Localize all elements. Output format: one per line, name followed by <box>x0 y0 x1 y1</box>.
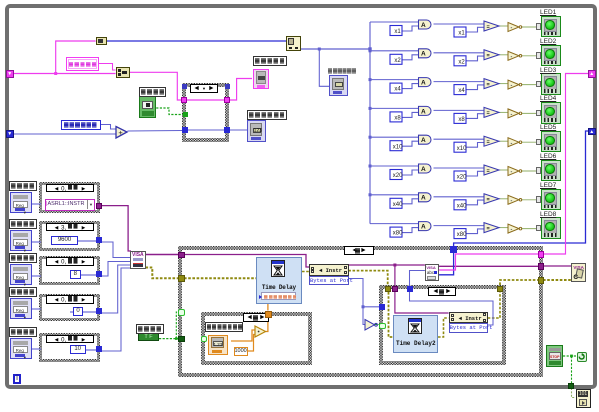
wire: bus tap row 8 <box>370 223 419 225</box>
svg-text:=: = <box>487 24 490 30</box>
wire: string from left shift register <box>13 73 116 75</box>
indicator: LED current state with label <box>328 68 356 74</box>
wire: Equal to Not row 3 <box>499 83 508 85</box>
shift register right (count, blue) <box>588 128 596 136</box>
control: receive period DBL (1.23) <box>208 335 228 355</box>
svg-text:-: - <box>511 54 513 60</box>
wire: value into inner case tunnel <box>363 306 380 308</box>
property node: Bytes at Port (2) <box>449 312 488 324</box>
numeric constant 9600 (baud rate) <box>51 236 78 246</box>
node: Concatenate Strings <box>116 67 130 78</box>
wire: bus tap row 4 <box>370 107 419 109</box>
wire: period value to divide <box>231 330 256 341</box>
indicator LED1 (boolean round LED) <box>541 16 561 38</box>
case structure: stop bits default case <box>39 333 100 362</box>
wire: mask const to AND row 8 <box>402 228 419 233</box>
AND gate row 4 <box>419 106 432 115</box>
Equal? node row 6 <box>484 165 499 175</box>
tunnel: boolean selector (inner read case left) <box>379 323 386 330</box>
tunnel: VISA out (comm port case) <box>96 203 102 209</box>
Equal? node row 7 <box>484 194 499 204</box>
LED6 input terminal stub <box>536 167 541 174</box>
shift register right (string, pink) <box>588 70 596 78</box>
control terminal icon: baud rate (ring) <box>10 230 32 251</box>
wire: constant to tunnel (parity) <box>70 310 100 314</box>
wire: read count to right shift register <box>454 131 588 246</box>
junction: bus row 7 <box>369 193 372 196</box>
case structure: baud rate default case <box>39 221 100 251</box>
wire: bus tap row 1 <box>370 21 419 23</box>
express VI: Time Delay <box>256 257 302 304</box>
svg-text:A: A <box>421 108 426 115</box>
svg-text:x80: x80 <box>457 232 467 238</box>
case structure: inner read case <box>379 285 506 365</box>
indicator LED8 label <box>540 211 556 218</box>
svg-text:+: + <box>118 128 123 137</box>
numeric constant 0 (parity) <box>73 307 84 317</box>
control terminal icon: stop bits (ring) <box>10 338 32 359</box>
wire: AND out to Equal row 4 <box>434 109 485 111</box>
wire: bytes-at-port value down <box>348 279 363 307</box>
constant x20 (mask, col 2) row 6 <box>454 171 466 181</box>
constant x10 (mask, col 1) row 5 <box>390 141 402 151</box>
Equal? node row 5 <box>484 136 499 146</box>
wire: value to Not-equal node <box>363 307 365 325</box>
wire: Not to LED4 <box>521 112 541 114</box>
wire: error into inner case <box>348 271 387 287</box>
svg-text:x2: x2 <box>394 58 401 64</box>
svg-text:x2: x2 <box>458 59 465 65</box>
svg-text:x80: x80 <box>393 231 403 237</box>
express VI: Time Delay2 <box>393 315 438 353</box>
indicator LED2 (boolean round LED) <box>541 45 561 67</box>
wire: Equal to Not row 2 <box>499 54 508 56</box>
tunnel: boolean clear (top case left) <box>183 112 188 117</box>
svg-text:x8: x8 <box>458 117 465 123</box>
wire: mask const to Equal row 8 <box>466 229 484 234</box>
wire: data bits to configure <box>101 262 130 277</box>
control label: data bits <box>9 253 37 263</box>
wire: VISA ref to right tunnel <box>439 265 538 267</box>
Not node row 7 <box>508 195 519 204</box>
svg-text:x10: x10 <box>393 144 403 150</box>
Equal? node row 4 <box>484 107 499 117</box>
tunnel: error in (inner read case top) <box>385 286 391 292</box>
while loop conditional terminal (continue if true) <box>577 352 587 362</box>
tunnel: boolean selector (inner period case) <box>201 336 208 343</box>
tunnel: boolean ring (big case left) <box>178 309 185 316</box>
tunnel: error out (big case right) <box>538 277 545 284</box>
wire: error cluster to case <box>146 268 179 279</box>
tunnel: value in (inner read case left) <box>379 304 385 310</box>
constant x20 (mask, col 1) row 6 <box>390 170 402 180</box>
wire: parity to configure <box>101 265 130 313</box>
wire: parity control to case <box>31 307 41 311</box>
case selector header (inner read case) "true" <box>428 287 456 296</box>
wire: mask const to AND row 2 <box>402 55 419 60</box>
wire: mask const to Equal row 5 <box>466 143 484 148</box>
svg-text:x10: x10 <box>457 146 467 152</box>
case structure: comm port default case <box>39 182 100 213</box>
wire: mask const to Equal row 1 <box>466 27 484 32</box>
tunnel: value out (baud rate case) <box>96 237 102 243</box>
Not node row 1 <box>508 23 519 32</box>
control terminal icon: data bits (ring) <box>10 264 32 285</box>
case selector header (big case) "true" <box>344 246 374 255</box>
indicator LED4 (boolean round LED) <box>541 102 561 124</box>
indicator LED8 (boolean round LED) <box>541 217 561 239</box>
tunnel: data out (big case right) <box>538 251 545 258</box>
wire: 1000 const to divide <box>247 335 256 352</box>
svg-text:x4: x4 <box>458 88 465 94</box>
control: auto receive boolean with label <box>136 324 164 334</box>
wire: read data to right tunnel <box>439 254 538 270</box>
AND gate row 8 <box>419 222 432 231</box>
wire: AND out to Equal row 7 <box>434 196 485 198</box>
shift register left (count, blue) <box>6 130 14 138</box>
constant x2 (mask, col 1) row 2 <box>390 54 402 64</box>
wire: bus tap row 7 <box>370 194 419 196</box>
case selector header: 0, default <box>46 335 94 344</box>
indicator: data receive area (string) with label <box>253 56 287 66</box>
wire: clear button boolean <box>156 108 183 115</box>
tunnel: value out (parity case) <box>96 308 102 314</box>
junction: LED state branch <box>318 48 321 51</box>
svg-text:-: - <box>511 83 513 89</box>
Equal? node row 8 <box>484 223 499 233</box>
junction: bus row 3 <box>369 78 372 81</box>
wire: mask const to AND row 3 <box>402 84 419 89</box>
wire: delay seconds into Time Delay <box>267 298 269 311</box>
case selector header: 0, default <box>46 257 94 266</box>
junction: bus row 5 <box>369 136 372 139</box>
LED4 input terminal stub <box>536 110 541 117</box>
AND gate row 5 <box>419 135 432 144</box>
while loop iteration terminal i <box>13 374 21 384</box>
node: String Length <box>96 37 107 45</box>
wire: mask const to AND row 5 <box>402 141 419 146</box>
case selector terminal (big case) <box>178 336 185 343</box>
wire: comm port control to case <box>31 202 41 206</box>
tunnel: count out (top case right) <box>224 127 230 133</box>
indicator LED5 (boolean round LED) <box>541 131 561 153</box>
wire: mask const to AND row 6 <box>402 170 419 175</box>
case selector header: 0, default <box>46 184 94 193</box>
tunnel: value out (stop bits case) <box>96 346 102 352</box>
LED7 input terminal stub <box>536 196 541 203</box>
node: Type Cast <box>286 36 301 51</box>
wire: count from left blue shift register <box>13 133 116 135</box>
node: VISA Configure Serial Port <box>130 251 146 269</box>
wire: bytes2 value up to tunnel <box>410 285 494 325</box>
constant x40 (mask, col 2) row 7 <box>454 200 466 210</box>
label: clear data (数据清空) <box>139 87 167 97</box>
wire: bus tap row 5 <box>370 136 419 138</box>
wire: boolean branch to tunnel <box>176 312 178 339</box>
wire: constant to tunnel (data bits) <box>70 273 100 277</box>
wire: count into VISA Read <box>410 271 425 293</box>
junction: bus row 6 <box>369 165 372 168</box>
Not node row 5 <box>508 138 519 147</box>
wire: baud rate to configure <box>101 242 130 258</box>
junction: boolean <box>175 337 178 340</box>
wire: AND out to Equal row 2 <box>434 52 485 54</box>
svg-text:-: - <box>511 112 513 118</box>
svg-text:x4: x4 <box>394 87 401 93</box>
junction: bus row 2 <box>369 49 372 52</box>
tunnel: value out (data bits case) <box>96 271 102 277</box>
case structure: data bits default case <box>39 256 100 285</box>
wire: mask const to Equal row 3 <box>466 85 484 90</box>
indicator LED3 (boolean round LED) <box>541 73 561 95</box>
VISA resource combo constant ASRL1::INSTR <box>45 199 95 211</box>
wire: AND out to Equal row 6 <box>434 167 485 169</box>
wire: add output into case <box>128 130 183 133</box>
svg-text:A: A <box>421 137 426 144</box>
Not node row 8 <box>508 224 519 233</box>
wire: AND out to Equal row 1 <box>434 23 485 25</box>
constant x40 (mask, col 1) row 7 <box>390 198 402 208</box>
wire: node2 error up <box>488 290 500 318</box>
constant x4 (mask, col 2) row 3 <box>454 85 466 95</box>
AND gate row 2 <box>419 49 432 58</box>
tunnel: error out (inner read case top right) <box>497 286 503 292</box>
constant x80 (mask, col 2) row 8 <box>454 229 466 239</box>
wire: auto receive boolean <box>159 338 178 340</box>
control terminal icon: parity (ring) <box>10 298 32 319</box>
node: Add (count) <box>115 125 130 140</box>
constant x8 (mask, col 2) row 4 <box>454 113 466 123</box>
wire: bus tap row 3 <box>370 79 419 81</box>
wire: Not to LED7 <box>521 199 541 201</box>
AND gate row 7 <box>419 193 432 202</box>
wire: local var to Concatenate <box>99 64 116 71</box>
control label: stop bits <box>9 327 37 337</box>
wire: string through case to indicator <box>187 79 252 101</box>
wire: data bits control to case <box>31 274 41 278</box>
indicator LED4 label <box>540 95 556 102</box>
wire: Equal to Not row 4 <box>499 111 508 113</box>
indicator LED5 label <box>540 124 556 131</box>
svg-text:=: = <box>487 140 490 146</box>
node: Divide <box>254 325 267 338</box>
wire: stop bits control to case <box>31 347 41 351</box>
Time Delay input row label (delay time s) <box>259 295 262 299</box>
wire: branch to LED state indicator <box>319 49 329 86</box>
wire: VISA ref to property node <box>184 255 309 268</box>
svg-text:-: - <box>511 169 513 175</box>
shift register left (string, pink) <box>6 70 14 78</box>
case structure: parity default case <box>39 294 100 322</box>
control label: comm port <box>9 181 37 191</box>
svg-text:A: A <box>421 166 426 173</box>
wire: divide out up to tunnel <box>264 312 268 332</box>
control: STOP button <box>546 345 563 367</box>
svg-text:A: A <box>421 51 426 58</box>
node: cleanup VI below loop <box>576 389 591 408</box>
wire: Equal to Not row 8 <box>499 227 508 229</box>
wire: concatenated string into case <box>129 72 182 100</box>
tunnel: VISA in (big case left) <box>178 252 185 259</box>
wire: Not to LED8 <box>521 228 541 230</box>
tunnel: error in (big case left) <box>178 275 185 282</box>
case selector header (top case) <box>190 84 218 93</box>
property node: Bytes at Port (1) <box>309 264 349 276</box>
wire: stop down to tunnel <box>571 356 573 383</box>
wire: AND out to Equal row 5 <box>434 138 485 140</box>
constant x8 (mask, col 1) row 4 <box>390 112 402 122</box>
AND gate row 6 <box>419 164 432 173</box>
wire: VISA ref to VISA Read <box>348 264 425 266</box>
indicator LED2 label <box>540 38 556 45</box>
indicator LED7 (boolean round LED) <box>541 189 561 211</box>
indicator LED6 (boolean round LED) <box>541 160 561 182</box>
indicator LED1 label <box>540 9 556 16</box>
svg-text:=: = <box>487 168 490 174</box>
constant x4 (mask, col 1) row 3 <box>390 83 402 93</box>
svg-text:=: = <box>487 53 490 59</box>
node: VISA Close <box>571 263 586 282</box>
svg-text:=: = <box>487 82 490 88</box>
wire: AND out to Equal row 3 <box>434 81 485 83</box>
junction: stop wire <box>570 355 573 358</box>
wire: typecast output to bus <box>301 48 370 50</box>
svg-text:=: = <box>487 226 490 232</box>
case selector header: 3, default <box>46 223 94 232</box>
wire: constant to tunnel (stop bits) <box>70 348 100 352</box>
svg-text:A: A <box>421 22 426 29</box>
tunnel: string in (top case left) <box>181 97 187 103</box>
wire: vertical distribution bus <box>369 22 371 224</box>
wire: stop bits to configure <box>101 268 130 351</box>
svg-text:x8: x8 <box>394 116 401 122</box>
control terminal icon: comm port (ring) <box>10 192 32 213</box>
decor: top case corner squares <box>182 84 187 89</box>
wire: stop to node below loop <box>572 388 576 398</box>
LED3 input terminal stub <box>536 81 541 88</box>
svg-text:x20: x20 <box>393 173 403 179</box>
wire: error into Time Delay2 <box>389 292 394 337</box>
wire: Not to LED5 <box>521 141 541 143</box>
wire: mask const to AND row 4 <box>402 112 419 117</box>
LED1 input terminal stub <box>536 23 541 30</box>
tunnel: count out (big case top) <box>450 246 457 253</box>
wire: Equal to Not row 1 <box>499 25 508 27</box>
svg-text:x1: x1 <box>394 29 401 35</box>
wire: error to right tunnel <box>500 280 538 285</box>
wire: local count into add node <box>101 125 117 130</box>
svg-text:-: - <box>511 140 513 146</box>
wire: VISA ref to property node2 <box>395 292 449 313</box>
Equal? node row 3 <box>484 79 499 89</box>
wire: mask const to Equal row 4 <box>466 114 484 119</box>
wire: VISA resource to case <box>146 254 179 256</box>
constant x80 (mask, col 1) row 8 <box>390 227 402 237</box>
wire: VISA ref to VISA Close <box>543 265 571 267</box>
LED8 input terminal stub <box>536 225 541 232</box>
wire: baud rate control to case <box>31 240 41 244</box>
svg-text:-: - <box>511 198 513 204</box>
tunnel: delay out (inner period case top, orange) <box>265 311 272 318</box>
Not node row 4 <box>508 109 519 118</box>
node: VISA Read <box>425 264 439 282</box>
local variable label: received bytes (接收字节数：) <box>61 120 101 130</box>
wire: AND out to Equal row 8 <box>434 225 485 227</box>
case selector header (inner period case) "true" <box>243 313 269 322</box>
Equal? node row 1 <box>484 21 499 31</box>
wire: Not to LED6 <box>521 170 541 172</box>
constant: 1000 <box>234 347 248 356</box>
wire: mask const to AND row 1 <box>402 26 419 31</box>
Not node row 3 <box>508 80 519 89</box>
wire: stop button to loop condition <box>563 355 577 357</box>
wire: read data up to right shift register <box>543 74 588 255</box>
wire: VISA ref down into inner case <box>394 265 396 287</box>
LED5 input terminal stub <box>536 139 541 146</box>
wire: mask const to Equal row 6 <box>466 171 484 176</box>
constant x2 (mask, col 2) row 2 <box>454 56 466 66</box>
junction: value branch <box>362 305 365 308</box>
indicator LED3 label <box>540 67 556 74</box>
svg-text:-: - <box>511 227 513 233</box>
svg-text:A: A <box>421 224 426 231</box>
node: Not Equal to 0? <box>364 318 379 332</box>
control label: parity <box>9 287 37 297</box>
svg-text:=: = <box>487 197 490 203</box>
Not node row 2 <box>508 51 519 60</box>
constant x10 (mask, col 2) row 5 <box>454 142 466 152</box>
wire: boolean to inner case selector <box>375 324 380 326</box>
control label: baud rate <box>9 219 37 229</box>
Not node row 6 <box>508 167 519 176</box>
svg-text:=: = <box>487 111 490 117</box>
constant x1 (mask, col 1) row 1 <box>390 26 402 36</box>
wire: mask const to Equal row 7 <box>466 200 484 205</box>
numeric constant 10 (stop bits) <box>70 345 86 355</box>
svg-text:A: A <box>421 195 426 202</box>
numeric constant 8 (data bits) <box>70 270 81 280</box>
junction: bus feed <box>368 47 371 50</box>
tunnel: VISA in (inner read case top) <box>392 286 398 292</box>
case structure: big receive case <box>178 246 543 377</box>
tunnel: string out (top case right) <box>224 97 230 103</box>
wire: string to Type Cast (long blue) <box>106 40 286 42</box>
wire: error to VISA Close <box>543 279 571 281</box>
junction: VISA ref branch <box>393 264 396 267</box>
wire: Not to LED3 <box>521 84 541 86</box>
wire: Not to LED1 <box>521 26 541 28</box>
local variable: data receive area (top-left) <box>66 57 99 71</box>
svg-text:x1: x1 <box>458 31 465 37</box>
wire: bus tap row 6 <box>370 165 419 167</box>
wire: error into Time Delay <box>184 277 256 279</box>
junction: string wire <box>54 72 57 75</box>
wire: Not to LED2 <box>521 55 541 57</box>
tunnel: stop green (loop bottom border) <box>568 383 574 389</box>
indicator LED7 label <box>540 182 556 189</box>
case structure: inner period case <box>201 312 312 365</box>
wire: mask const to AND row 7 <box>402 199 419 204</box>
control label: receive period ms <box>205 322 243 332</box>
svg-text:x40: x40 <box>393 202 403 208</box>
wire: bus tap row 2 <box>370 50 419 52</box>
wire: Equal to Not row 5 <box>499 140 508 142</box>
wire: read count up through tunnel <box>439 250 454 275</box>
svg-text:-: - <box>511 25 513 31</box>
tunnel: count in (top case left) <box>182 127 188 133</box>
wire: mask const to Equal row 2 <box>466 56 484 61</box>
wire: Equal to Not row 7 <box>499 198 508 200</box>
